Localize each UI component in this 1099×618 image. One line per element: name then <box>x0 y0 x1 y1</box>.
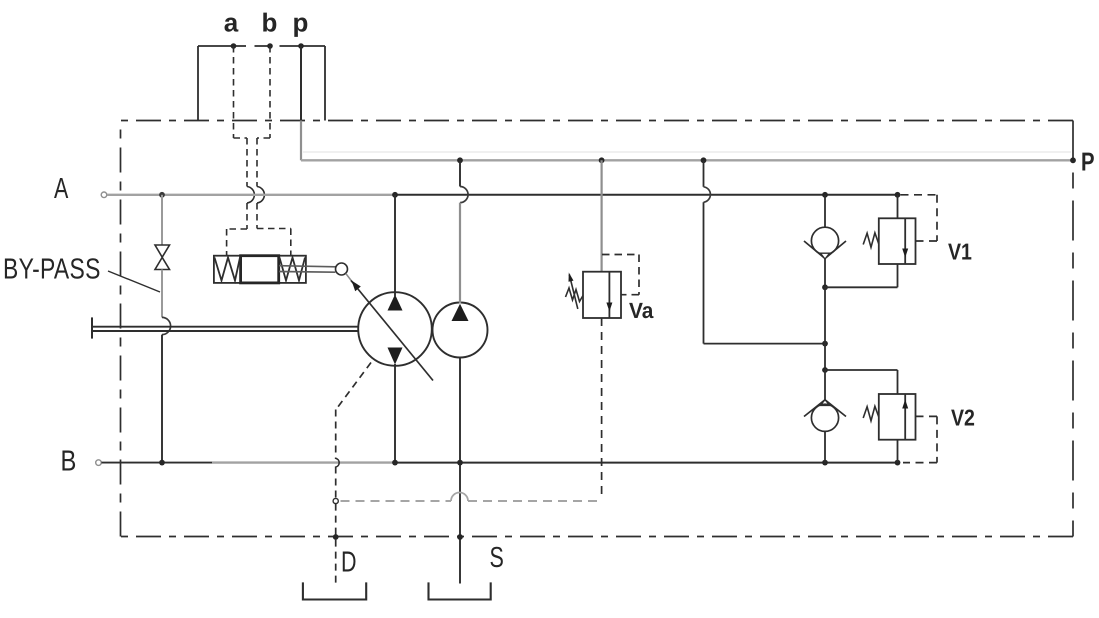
V2 pilot dashed <box>903 416 937 462</box>
variable displacement arrow shaft <box>351 281 433 381</box>
Va arrow down <box>606 303 612 312</box>
node B-S <box>457 460 463 466</box>
spring left cell <box>215 258 241 281</box>
check valve C1 ball circle <box>811 227 838 254</box>
hop 703 over A line <box>704 187 711 203</box>
drain hop over S line <box>451 493 468 502</box>
check valve C2 seat triangle <box>821 400 830 406</box>
node B-checkV2 <box>822 460 828 466</box>
wire P to Va (gray vertical) <box>600 160 602 271</box>
wire B line black left <box>102 462 213 464</box>
V1 arrow down <box>902 249 908 258</box>
svg-text:Va: Va <box>629 298 654 323</box>
node b dot <box>267 43 273 49</box>
node V2 top-left <box>822 367 828 373</box>
shutoff valve bowtie top triangle <box>155 245 170 257</box>
node a dot <box>231 43 237 49</box>
wire A line black part <box>395 194 898 196</box>
node A-checkV1 <box>822 192 828 198</box>
node P-Va <box>599 157 605 163</box>
svg-text:p: p <box>293 8 309 38</box>
pump P1 top triangle <box>388 295 403 311</box>
wire P supply line (gray horizontal) <box>301 159 1073 161</box>
pilot line b (dashed) <box>257 46 291 256</box>
drain dashed diagonal from pump case <box>336 363 371 410</box>
enclosure left border <box>120 121 122 537</box>
Va adjust arrowhead <box>569 273 574 282</box>
top tab outline <box>198 46 325 121</box>
svg-text:A: A <box>54 173 69 205</box>
drain dashed vertical upper <box>335 410 337 460</box>
wire bypass branch upper (gray) <box>161 195 163 245</box>
drain gray dashed to Va <box>468 500 602 502</box>
check valve C1 top wire <box>824 195 826 228</box>
wire mid vertical 825 <box>824 287 826 370</box>
V1 bottom wire <box>897 264 899 287</box>
pivot circle <box>336 263 348 275</box>
V2 divider / flow line <box>904 394 906 440</box>
node S-border <box>457 534 463 540</box>
Va pilot dashed <box>602 255 639 295</box>
wire A line gray part <box>107 194 395 196</box>
V2 bottom wire <box>897 440 899 463</box>
node mid-825 <box>822 341 828 347</box>
node C1 bottom <box>822 284 828 290</box>
check valve C1 seat triangle <box>821 253 830 259</box>
check valve C2 ball circle <box>811 404 838 431</box>
enclosure bottom border <box>121 536 1074 538</box>
wire pump P2 bottom / S line <box>459 358 461 584</box>
wire to pump P2 gray <box>459 203 461 304</box>
relief valve V1 top wire <box>897 195 899 219</box>
check valve C1 seat arms <box>804 241 846 259</box>
pilot line a (dashed) <box>227 46 247 256</box>
node A-bypass <box>159 192 165 198</box>
node p dot <box>298 43 304 49</box>
port B open circle <box>96 460 102 466</box>
Va spring zigzag <box>566 288 584 302</box>
node A-V1 <box>895 192 901 198</box>
pump P2 wire hop over A <box>460 187 468 203</box>
node B-pump1 <box>392 460 398 466</box>
svg-text:D: D <box>341 547 357 579</box>
drain gray dashed horizontal <box>341 500 452 502</box>
relief valve V1 box <box>879 218 916 264</box>
leader line BY-PASS <box>108 271 160 292</box>
svg-text:P: P <box>1081 147 1095 177</box>
port A open circle <box>101 192 107 198</box>
svg-text:V1: V1 <box>948 239 972 265</box>
V1 spring zigzag <box>863 233 879 248</box>
tank S bracket <box>429 582 491 599</box>
svg-text:BY-PASS: BY-PASS <box>3 254 101 286</box>
wire B line gray middle <box>212 461 396 463</box>
Va adjust arrow <box>569 275 578 309</box>
wire P down at 703 (black) <box>703 160 705 187</box>
drive shaft end tick <box>91 317 93 338</box>
ghost scan line <box>303 151 1071 153</box>
check valve C2 bottom wire <box>824 431 826 462</box>
link circle to arrow <box>346 274 354 284</box>
node P end <box>1070 157 1076 163</box>
V2 arrow up <box>902 400 908 409</box>
shutoff valve bowtie bottom triangle <box>155 257 170 269</box>
node P-703 <box>701 157 707 163</box>
Va drain dashed below <box>601 318 603 500</box>
pump P2 triangle <box>452 304 469 321</box>
wire V1 bottom horizontal <box>825 286 898 288</box>
wire pump P1 top port <box>394 195 396 296</box>
wire B line black right <box>396 462 898 464</box>
gear pump P2 circle <box>433 303 488 358</box>
wire V2 top horizontal <box>825 369 898 371</box>
enclosure right border <box>1072 121 1074 537</box>
node A-pump <box>392 192 398 198</box>
wire p vertical (black above border) <box>300 46 302 121</box>
enclosure top border <box>121 120 1074 122</box>
variable pump P1 circle <box>358 292 432 366</box>
spring right cell <box>280 258 306 281</box>
Va divider / flow line <box>608 272 610 318</box>
svg-text:b: b <box>262 8 278 38</box>
V1 divider / flow line <box>904 218 906 264</box>
wire p vertical gray <box>300 121 302 161</box>
wire P to pump P2 (black above hop) <box>459 160 461 186</box>
wire D dashed below <box>335 504 337 584</box>
node B-V2 <box>895 460 901 466</box>
V2 spring zigzag <box>863 406 879 421</box>
relief valve V2 box <box>879 394 916 440</box>
drain junction circle <box>333 498 338 503</box>
node B-bypass <box>159 460 165 466</box>
wire 703 to mid node <box>704 343 826 345</box>
relief valve Va box <box>583 272 621 318</box>
svg-text:a: a <box>224 8 239 38</box>
check valve C2 top wire <box>824 370 826 400</box>
node D-border <box>333 534 339 540</box>
drive shaft double line <box>92 327 359 331</box>
wire 703 vertical lower <box>703 202 705 343</box>
pilot a hop over A line <box>247 187 254 204</box>
directional valve U1 outer box <box>214 256 306 283</box>
wire pump P1 bottom port <box>394 364 396 463</box>
V1 pilot dashed <box>901 195 938 241</box>
control rod double line <box>279 266 336 273</box>
check valve C1 bottom wire <box>824 259 826 287</box>
pilot b hop over A line <box>257 187 264 204</box>
directional valve center cell (bold) <box>241 256 279 283</box>
pump P1 bottom triangle <box>388 348 403 365</box>
tank D bracket <box>303 582 366 599</box>
wire bypass to B (black) <box>161 335 163 463</box>
svg-text:S: S <box>490 542 504 574</box>
bypass hop over shaft <box>162 317 171 334</box>
wire V2 top vertical <box>897 370 899 394</box>
drain hop over B line <box>336 458 339 467</box>
check valve C2 seat arms <box>804 400 846 417</box>
svg-text:V2: V2 <box>951 405 975 431</box>
drain dashed vertical to circle <box>335 467 337 499</box>
wire bypass branch lower (gray) <box>161 270 163 318</box>
svg-text:B: B <box>61 446 77 478</box>
variable displacement arrowhead <box>352 281 361 292</box>
node P-460 <box>457 157 463 163</box>
